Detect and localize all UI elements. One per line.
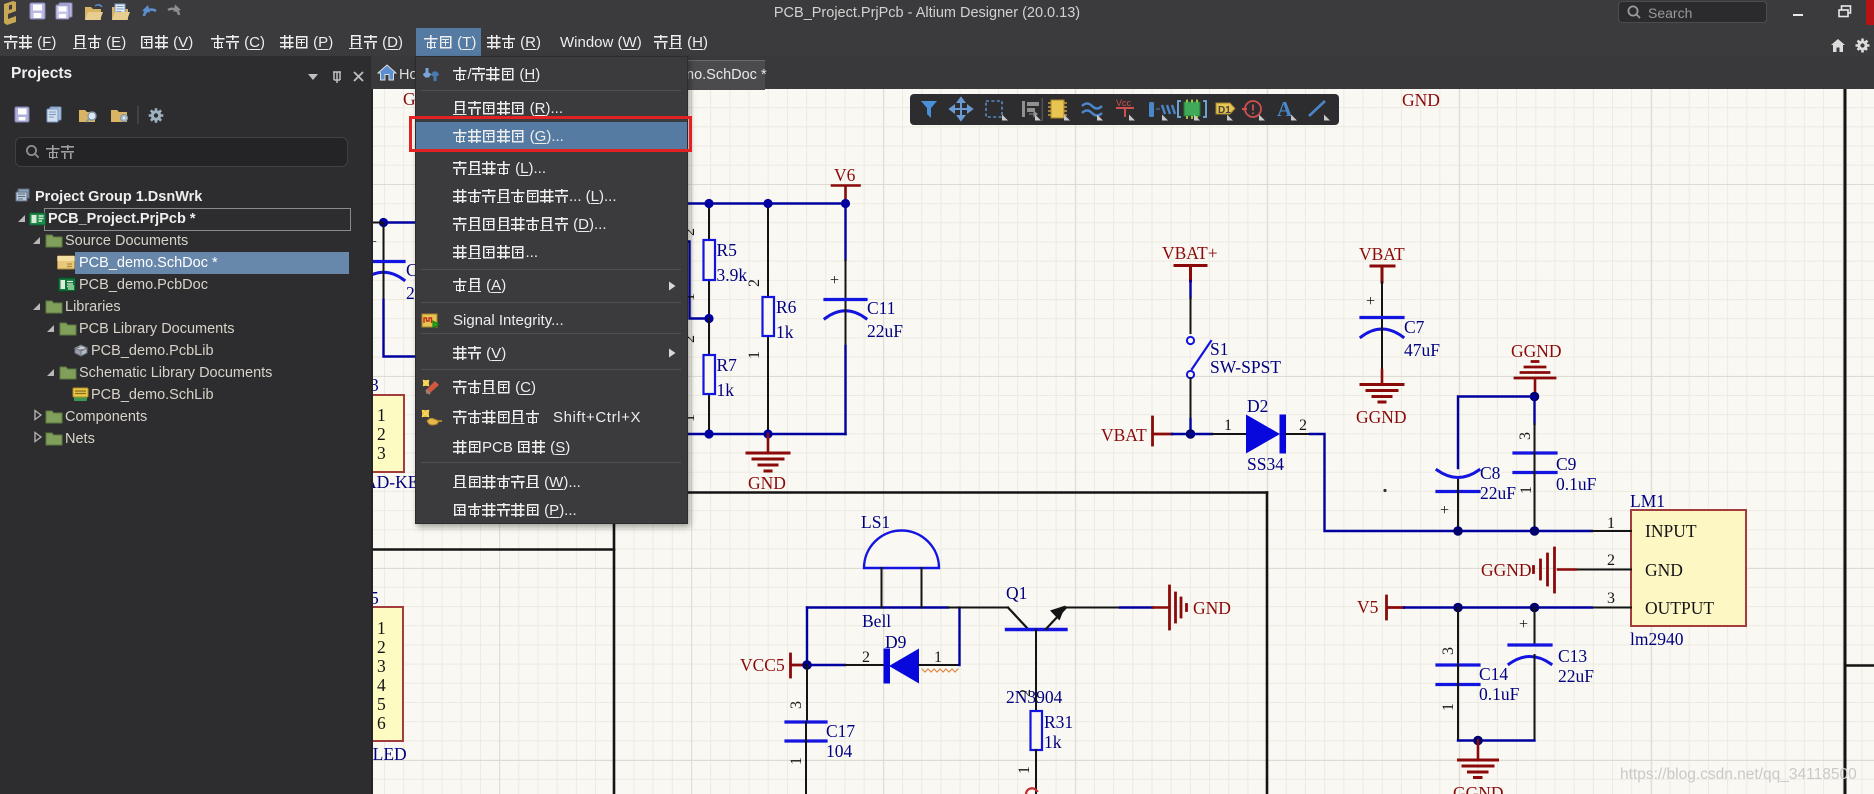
junction node VCC5 — [802, 660, 812, 670]
svg-text:2: 2 — [1017, 689, 1034, 697]
svg-text:6: 6 — [377, 713, 386, 733]
svg-text:GGND: GGND — [1356, 407, 1407, 427]
svg-text:R31: R31 — [1044, 712, 1073, 732]
svg-text:Vcc: Vcc — [1116, 98, 1132, 108]
svg-text:LS1: LS1 — [861, 512, 890, 532]
svg-text:Q1: Q1 — [1006, 583, 1027, 603]
svg-text:GND: GND — [1645, 560, 1683, 580]
resistor R5 — [708, 204, 710, 240]
svg-text:0.1uF: 0.1uF — [1556, 474, 1597, 494]
svg-text:1: 1 — [1518, 486, 1535, 494]
svg-text:3: 3 — [788, 701, 805, 709]
svg-text:2: 2 — [377, 424, 386, 444]
svg-text:22uF: 22uF — [867, 321, 903, 341]
sheet partition line vertical x1267 — [1266, 493, 1269, 794]
capacitor C14 0.1uF — [1457, 608, 1459, 665]
resistor R31 — [1035, 630, 1037, 711]
svg-text:GGND: GGND — [1511, 341, 1562, 361]
svg-text:1k: 1k — [1044, 732, 1062, 752]
wire GGND node to C8/C9 — [1458, 397, 1535, 469]
svg-text:C7: C7 — [1404, 317, 1425, 337]
wire net V6 top horizontal — [660, 202, 846, 204]
capacitor C7 47uF — [1381, 282, 1383, 330]
svg-text:LM1: LM1 — [1630, 491, 1665, 511]
watermark — [1620, 766, 1857, 784]
svg-text:C11: C11 — [867, 298, 896, 318]
tree — [0, 186, 369, 792]
capacitor C11 (polarized) — [844, 204, 846, 261]
svg-text:S1: S1 — [1210, 339, 1228, 359]
svg-text:1k: 1k — [776, 322, 794, 342]
capacitor C9 0.1uF — [1534, 424, 1536, 452]
svg-text:1: 1 — [377, 618, 386, 638]
svg-text:SW-SPST: SW-SPST — [1210, 357, 1281, 377]
svg-text:3: 3 — [1440, 647, 1457, 655]
junction node GGND net — [1530, 392, 1540, 402]
junction dots on V5 net — [1453, 603, 1463, 613]
sheet border right — [1844, 89, 1847, 794]
junction dots on bottom net — [704, 429, 713, 438]
svg-text:0.1uF: 0.1uF — [1479, 684, 1520, 704]
svg-text:R7: R7 — [717, 355, 738, 375]
svg-text:OLED: OLED — [371, 744, 407, 764]
svg-text:1: 1 — [1440, 703, 1457, 711]
svg-text:VBAT: VBAT — [1101, 425, 1147, 445]
svg-text:3: 3 — [377, 443, 386, 463]
svg-text:1: 1 — [1607, 515, 1615, 532]
capacitor C13 22uF — [1534, 608, 1536, 644]
svg-text:SS34: SS34 — [1247, 454, 1284, 474]
svg-text:C14: C14 — [1479, 664, 1508, 684]
svg-text:1: 1 — [1016, 766, 1033, 774]
svg-text:INPUT: INPUT — [1645, 521, 1697, 541]
svg-text:22uF: 22uF — [1558, 666, 1594, 686]
svg-text:C13: C13 — [1558, 646, 1587, 666]
wire D9 to bell net — [958, 608, 960, 666]
svg-text:C9: C9 — [1556, 454, 1577, 474]
compile-error squiggle under D9 pin 1 — [922, 669, 958, 672]
svg-text:1: 1 — [934, 649, 942, 666]
svg-text:2: 2 — [1607, 552, 1615, 569]
svg-text:R5: R5 — [717, 240, 738, 260]
capacitor C17 104 — [806, 665, 808, 721]
svg-text:4: 4 — [377, 675, 386, 695]
svg-text:D1: D1 — [1218, 105, 1231, 116]
svg-text:+: + — [1366, 293, 1375, 310]
svg-text:GGND: GGND — [1481, 560, 1532, 580]
sheet partition line horizontal left — [360, 548, 614, 551]
schematic canvas — [371, 56, 1874, 794]
wire net bottom GND horizontal — [660, 433, 846, 435]
pin 2 GND with rotated GGND — [1576, 569, 1631, 571]
sheet partition line horizontal y492 — [614, 491, 1267, 494]
svg-text:2N3904: 2N3904 — [1006, 687, 1063, 707]
menu bar — [0, 27, 1874, 56]
wire VCC5 riser to bell net — [806, 608, 808, 666]
svg-text:C17: C17 — [826, 721, 855, 741]
svg-text:2: 2 — [862, 649, 870, 666]
wire bottom GGND net — [1458, 739, 1535, 741]
wire D2 to LM1 input — [1310, 434, 1592, 531]
left Projects panel — [0, 56, 373, 794]
resistor R6 — [767, 204, 769, 298]
svg-text:3: 3 — [1607, 590, 1615, 607]
svg-text:R6: R6 — [776, 297, 797, 317]
svg-text:+: + — [830, 272, 839, 289]
power ground GND (bar style) right of Q1 — [1153, 606, 1168, 609]
svg-text:GND: GND — [748, 473, 786, 493]
dropdown menu 工具 — [415, 56, 688, 524]
svg-text:1: 1 — [377, 405, 386, 425]
svg-text:C8: C8 — [1480, 463, 1501, 483]
svg-text:V6: V6 — [834, 165, 856, 185]
svg-text:+: + — [1519, 616, 1528, 633]
stray dot artifact — [1383, 489, 1386, 492]
svg-text:VBAT+: VBAT+ — [1162, 243, 1218, 263]
svg-text:2: 2 — [1299, 417, 1307, 434]
power port V6 — [832, 186, 860, 204]
svg-text:1k: 1k — [717, 380, 735, 400]
svg-text:1: 1 — [788, 757, 805, 765]
power port (clipped, bottom) — [1026, 788, 1037, 794]
svg-text:3: 3 — [1517, 432, 1534, 440]
svg-text:47uF: 47uF — [1404, 340, 1440, 360]
svg-text:OUTPUT: OUTPUT — [1645, 598, 1714, 618]
svg-text:+: + — [1440, 502, 1449, 519]
ground GND under R6 — [767, 434, 770, 452]
wire Q1 emitter to GND — [1120, 606, 1153, 608]
svg-text:2: 2 — [377, 637, 386, 657]
capacitor C2x (left, clipped by panel) — [379, 218, 388, 227]
svg-text:V5: V5 — [1357, 597, 1379, 617]
tab bar — [371, 56, 1874, 89]
wire VBAT+ to switch — [1189, 281, 1191, 298]
ground GGND under C7 — [1361, 385, 1403, 403]
svg-text:104: 104 — [826, 741, 853, 761]
svg-text:D2: D2 — [1247, 396, 1268, 416]
svg-text:GND: GND — [1193, 598, 1231, 618]
svg-text:3.9k: 3.9k — [717, 265, 748, 285]
capacitor C8 22uF (plus down) — [1437, 470, 1479, 478]
svg-text:3: 3 — [377, 656, 386, 676]
wire bell net horizontal — [807, 606, 948, 608]
ground GGND bottom — [1477, 741, 1480, 760]
svg-text:2: 2 — [746, 279, 763, 287]
svg-text:22uF: 22uF — [1480, 483, 1516, 503]
junction dots on V6 net — [704, 199, 713, 208]
switch S1 SW-SPST — [1190, 298, 1192, 333]
svg-text:GGND: GGND — [1453, 783, 1504, 794]
svg-text:VCC5: VCC5 — [740, 655, 785, 675]
wire feedback bracket left of R5 — [660, 242, 708, 319]
svg-text:lm2940: lm2940 — [1630, 629, 1684, 649]
title bar — [0, 0, 1874, 27]
svg-text:1: 1 — [746, 351, 763, 359]
pin 1 INPUT — [1592, 530, 1631, 532]
svg-text:5: 5 — [377, 694, 386, 714]
pin 3 OUTPUT — [1592, 607, 1631, 609]
red annotation box — [409, 116, 692, 152]
wire V5 to OUTPUT — [1404, 606, 1592, 608]
svg-text:A: A — [1277, 97, 1293, 121]
sheet partition line vertical x614 — [613, 492, 616, 794]
resistor R7 — [708, 319, 710, 356]
junction node bottom GGND — [1473, 736, 1483, 746]
svg-text:GND: GND — [1402, 90, 1440, 110]
junction node R5/R7 — [704, 314, 713, 323]
wire VCC5 to D9 — [807, 664, 845, 666]
svg-text:Bell: Bell — [862, 611, 891, 631]
svg-text:VBAT: VBAT — [1359, 244, 1405, 264]
junction node VBAT/S1/D2 — [1186, 429, 1196, 439]
junction dots on INPUT net — [1453, 526, 1463, 536]
floating active bar — [910, 94, 1339, 125]
svg-text:1: 1 — [1224, 417, 1232, 434]
diode D2 SS34 — [1191, 433, 1213, 435]
